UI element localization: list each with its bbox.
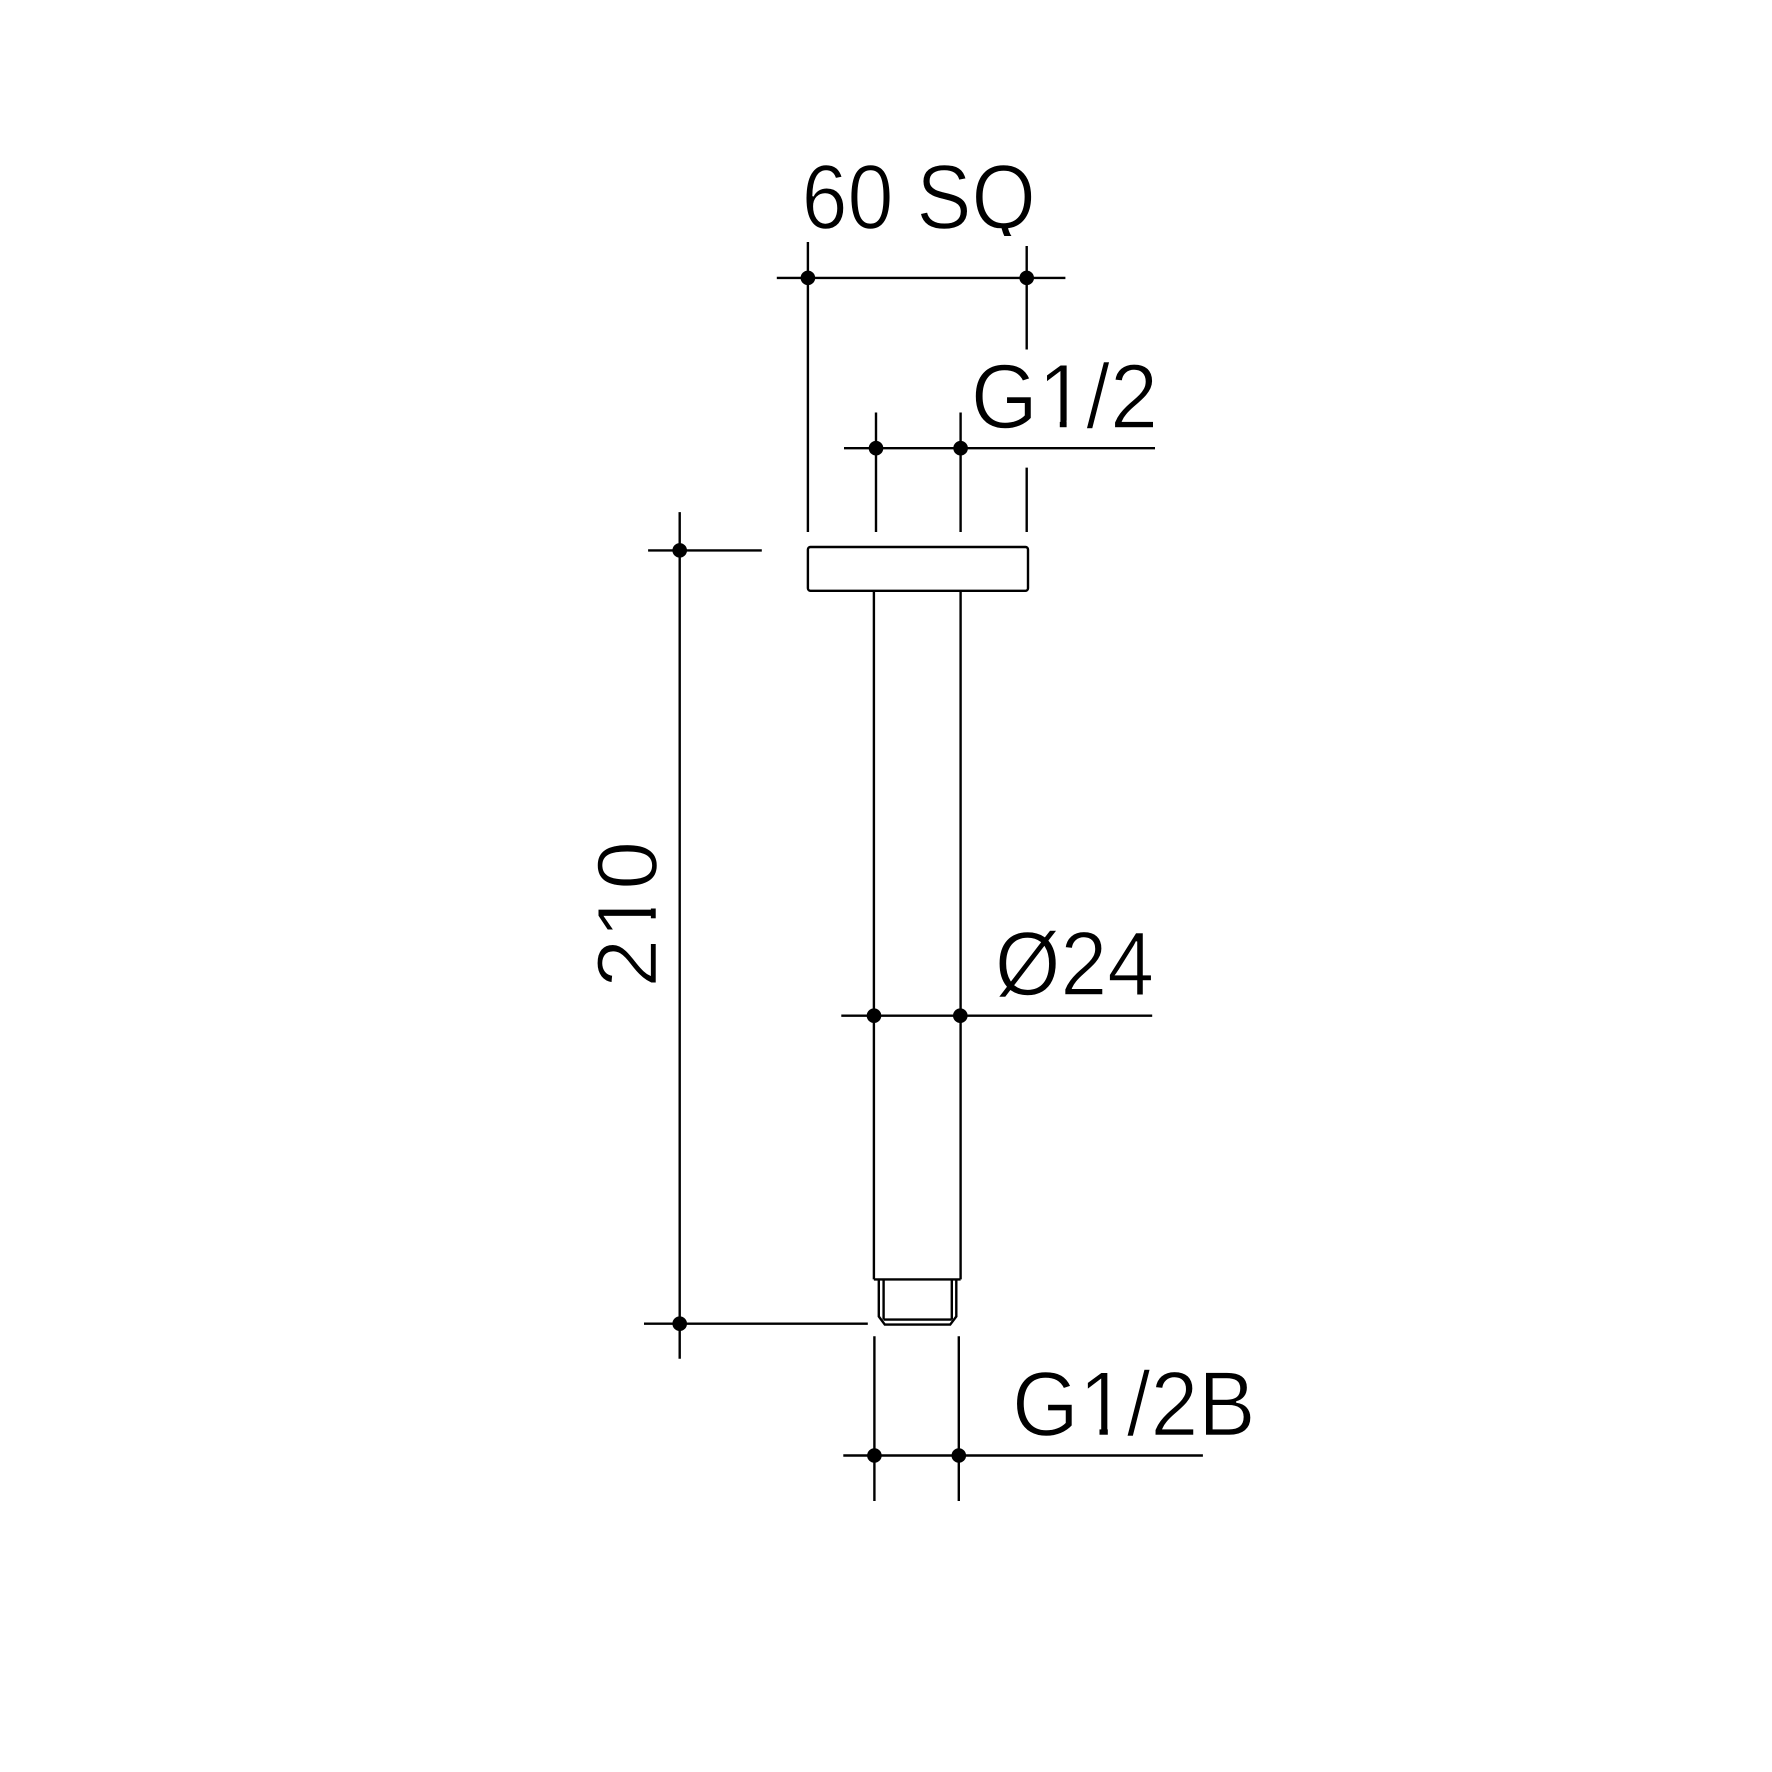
extension line 60 SQ left [807, 242, 809, 532]
extension line G1/2 right [959, 413, 961, 533]
dot left diameter 24 [867, 1008, 882, 1023]
tube left wall [873, 591, 875, 1280]
extension line 60 SQ right lower [1025, 468, 1027, 532]
extension line 60 SQ right upper [1025, 246, 1027, 350]
extension line G1/2 left [875, 413, 877, 533]
svg-text:60 SQ: 60 SQ [802, 145, 1036, 248]
svg-text:G1/2B: G1/2B [1012, 1352, 1256, 1455]
thread inner bottom line [884, 1318, 952, 1320]
tube right wall [959, 591, 961, 1280]
serif mask for digit 1 of G1/2B [1084, 1428, 1124, 1440]
dimension line G1/2B [843, 1454, 1203, 1456]
thread outer profile [879, 1279, 957, 1324]
dot 210 bottom [672, 1316, 687, 1331]
tube bottom shoulder [874, 1278, 961, 1280]
dot left G1/2B [867, 1448, 882, 1463]
svg-text:210: 210 [581, 841, 675, 988]
dimension line 210 vertical [679, 512, 681, 1359]
tick line 210 top [648, 549, 762, 551]
svg-text:G1/2: G1/2 [971, 345, 1158, 448]
dot right G1/2 [953, 441, 968, 456]
dimension line diameter 24 [841, 1015, 1152, 1017]
serif mask for digit 1 of G1/2 [1044, 421, 1084, 433]
flange ceiling plate [808, 547, 1028, 591]
Q tail trim mask [1000, 236, 1025, 247]
thread inner line right [951, 1279, 953, 1319]
extension line G1/2B left [873, 1336, 875, 1501]
dot left 60 SQ [801, 271, 816, 286]
dot right diameter 24 [953, 1008, 968, 1023]
dot right 60 SQ [1019, 271, 1034, 286]
dimension line G1/2 [844, 447, 1155, 449]
extension line G1/2B right [958, 1336, 960, 1501]
serif mask for digit 1 of 210 [647, 894, 659, 934]
dot left G1/2 [869, 441, 884, 456]
svg-text:Ø24: Ø24 [995, 913, 1154, 1015]
dimension line 60 SQ [777, 277, 1066, 279]
dot right G1/2B [952, 1448, 967, 1463]
tick line 210 bottom [644, 1322, 868, 1324]
thread inner line left [882, 1279, 884, 1319]
dot 210 top [672, 543, 687, 558]
